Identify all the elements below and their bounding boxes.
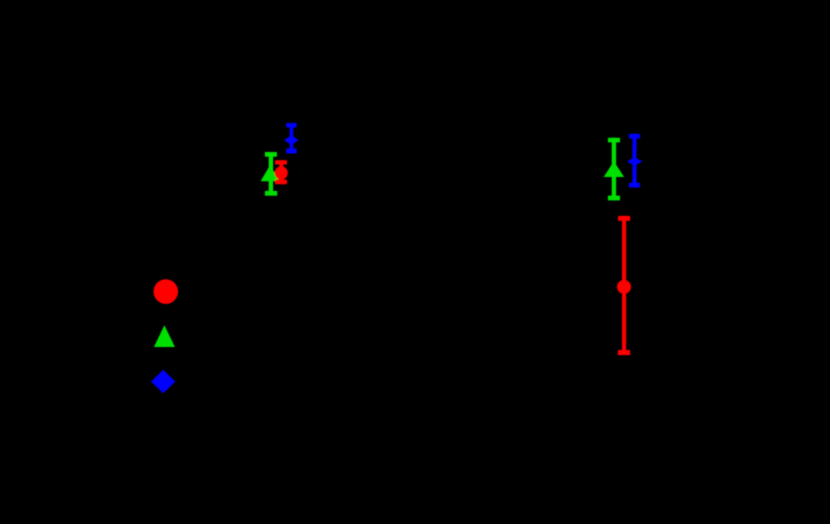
legend marker: red circle (154, 279, 179, 304)
group 1: blue point with error bar (284, 123, 299, 154)
group 1: green point with error bar (261, 152, 280, 196)
group 2: blue point with error bar (627, 134, 643, 188)
group 2: green point with error bar (604, 138, 624, 201)
group 1: red point with error bar (drawn over green) (275, 160, 288, 184)
group 2 low: red point with long error bar (617, 216, 631, 355)
legend marker: blue diamond (151, 370, 175, 394)
legend marker: green triangle (154, 325, 175, 347)
